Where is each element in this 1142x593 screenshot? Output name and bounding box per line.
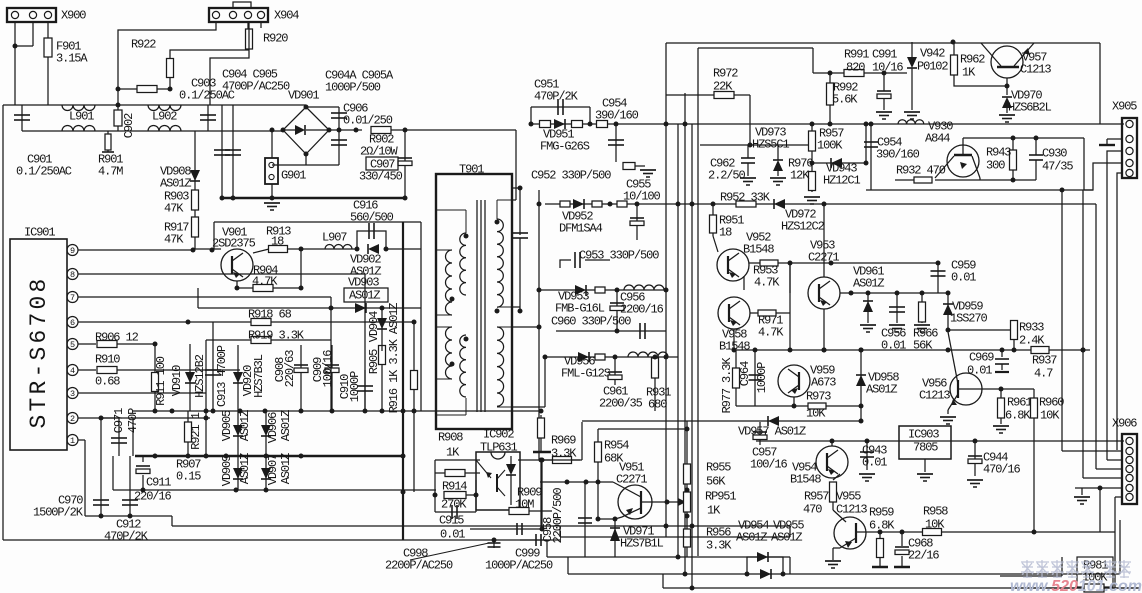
svg-text:R943: R943 (986, 146, 1011, 160)
svg-text:X904: X904 (274, 9, 299, 23)
svg-text:12K: 12K (790, 169, 810, 183)
svg-text:P0102: P0102 (917, 60, 948, 74)
svg-text:680: 680 (648, 398, 667, 412)
svg-text:HZS5C1: HZS5C1 (752, 138, 790, 152)
svg-text:10M: 10M (515, 498, 534, 512)
svg-text:G901: G901 (281, 169, 306, 183)
svg-text:C964: C964 (738, 361, 752, 386)
svg-text:R914: R914 (442, 480, 467, 494)
svg-text:HZS12C2: HZS12C2 (781, 220, 825, 234)
svg-text:4.7K: 4.7K (754, 276, 780, 290)
svg-text:C913 4700P: C913 4700P (215, 345, 229, 407)
svg-text:1000P/500: 1000P/500 (325, 81, 381, 95)
svg-text:68K: 68K (604, 452, 624, 466)
svg-text:B1548: B1548 (743, 243, 774, 257)
svg-text:2200P/AC250: 2200P/AC250 (385, 559, 453, 573)
svg-text:R920: R920 (263, 32, 288, 46)
svg-text:6: 6 (70, 318, 75, 328)
svg-text:56K: 56K (913, 339, 933, 353)
svg-text:4.7: 4.7 (1034, 367, 1053, 381)
svg-text:10K: 10K (1040, 409, 1060, 423)
svg-text:VD957 AS01Z: VD957 AS01Z (738, 425, 806, 439)
svg-text:FMG-G26S: FMG-G26S (540, 140, 590, 154)
svg-text:3.3K: 3.3K (551, 447, 577, 461)
svg-text:100/16: 100/16 (750, 458, 788, 472)
svg-text:VD901: VD901 (288, 89, 319, 103)
svg-text:220/63: 220/63 (283, 350, 297, 388)
svg-text:R919 3.3K: R919 3.3K (248, 329, 305, 343)
svg-text:RP951: RP951 (705, 490, 736, 504)
svg-text:22K: 22K (713, 80, 733, 94)
svg-text:R991: R991 (844, 48, 869, 62)
svg-text:0.01: 0.01 (967, 364, 992, 378)
svg-text:820: 820 (846, 61, 865, 75)
svg-text:4.7K: 4.7K (758, 326, 784, 340)
svg-text:10K: 10K (925, 518, 945, 532)
svg-text:1000P/AC250: 1000P/AC250 (485, 559, 553, 573)
svg-text:HZS7B1L: HZS7B1L (620, 537, 664, 551)
svg-text:4700P/AC250: 4700P/AC250 (222, 80, 290, 94)
svg-text:5: 5 (70, 340, 75, 350)
svg-text:3.15A: 3.15A (56, 52, 88, 66)
svg-text:R969: R969 (551, 434, 576, 448)
svg-text:390/160: 390/160 (876, 148, 920, 162)
svg-text:10/100: 10/100 (623, 190, 661, 204)
svg-text:3: 3 (70, 389, 75, 399)
svg-text:R955: R955 (706, 461, 731, 475)
svg-text:R959: R959 (869, 506, 894, 520)
svg-text:0.01: 0.01 (440, 528, 465, 542)
svg-text:390/160: 390/160 (595, 109, 639, 123)
svg-text:C953 330P/500: C953 330P/500 (579, 249, 659, 263)
svg-text:R977 3.3K: R977 3.3K (720, 357, 734, 414)
svg-text:R911 100: R911 100 (154, 356, 168, 406)
svg-text:STR-S6708: STR-S6708 (26, 275, 52, 428)
svg-text:AS01Z: AS01Z (853, 277, 884, 291)
svg-text:9: 9 (70, 246, 75, 256)
svg-text:R961: R961 (1007, 396, 1032, 410)
svg-text:C969: C969 (969, 351, 994, 365)
svg-text:300: 300 (986, 159, 1005, 173)
svg-text:1SS270: 1SS270 (950, 312, 988, 326)
svg-text:HZ12C1: HZ12C1 (823, 174, 861, 188)
svg-text:FML-G12S: FML-G12S (561, 367, 611, 381)
svg-text:AS01Z: AS01Z (279, 410, 293, 441)
svg-text:AS01Z: AS01Z (238, 453, 252, 484)
svg-text:C991: C991 (872, 48, 897, 62)
svg-text:FMB-G16L: FMB-G16L (555, 302, 605, 316)
svg-text:R910: R910 (95, 353, 120, 367)
svg-text:0.1/250AC: 0.1/250AC (16, 165, 72, 179)
svg-text:470P/2K: 470P/2K (104, 530, 149, 544)
svg-text:C2271: C2271 (616, 473, 647, 487)
svg-text:1K: 1K (962, 66, 976, 80)
svg-text:0.68: 0.68 (95, 375, 120, 389)
svg-text:IC902: IC902 (483, 428, 514, 442)
svg-text:18: 18 (271, 235, 284, 249)
svg-text:7805: 7805 (913, 441, 938, 455)
svg-text:X900: X900 (61, 9, 86, 23)
svg-text:R933: R933 (1019, 321, 1044, 335)
svg-text:C930: C930 (1042, 147, 1067, 161)
svg-text:R972: R972 (713, 67, 738, 81)
svg-text:56K: 56K (706, 475, 726, 489)
svg-text:R954: R954 (604, 439, 629, 453)
svg-text:7: 7 (70, 293, 75, 303)
svg-text:C1213: C1213 (836, 503, 867, 517)
svg-text:47K: 47K (164, 233, 184, 247)
svg-text:VD904: VD904 (367, 311, 381, 342)
svg-text:1000P: 1000P (348, 371, 362, 402)
svg-text:AS01Z: AS01Z (866, 383, 897, 397)
svg-text:2: 2 (70, 414, 75, 424)
svg-text:VD909: VD909 (220, 455, 234, 486)
svg-text:0.01: 0.01 (951, 271, 976, 285)
svg-text:1500P/2K: 1500P/2K (33, 506, 84, 520)
svg-text:4: 4 (70, 366, 75, 376)
svg-text:C1213: C1213 (1020, 63, 1051, 77)
svg-text:6.8K: 6.8K (1005, 409, 1031, 423)
svg-text:DFM1SA4: DFM1SA4 (559, 222, 603, 236)
svg-text:VD907: VD907 (266, 454, 280, 485)
svg-text:R921 1: R921 1 (189, 412, 203, 450)
svg-text:www.520101.com: www.520101.com (1010, 578, 1142, 593)
svg-text:2200/35: 2200/35 (599, 397, 643, 411)
svg-text:470/16: 470/16 (983, 463, 1021, 477)
svg-text:L902: L902 (152, 110, 177, 124)
svg-text:L901: L901 (69, 110, 94, 124)
svg-text:5.6K: 5.6K (832, 93, 858, 107)
svg-text:R952 33K: R952 33K (720, 191, 771, 205)
svg-text:X906: X906 (1112, 417, 1137, 431)
svg-text:AS01Z: AS01Z (238, 410, 252, 441)
svg-text:470P/2K: 470P/2K (534, 90, 579, 104)
svg-text:220/16: 220/16 (134, 490, 172, 504)
svg-text:HZS7B3L: HZS7B3L (252, 354, 266, 398)
svg-text:C960 330P/500: C960 330P/500 (551, 315, 631, 329)
svg-text:VD910: VD910 (170, 365, 184, 396)
svg-text:4.7M: 4.7M (98, 165, 123, 179)
svg-text:C902: C902 (122, 113, 136, 138)
svg-text:1K: 1K (707, 504, 721, 518)
svg-text:R960: R960 (1039, 396, 1064, 410)
svg-text:A673: A673 (811, 376, 836, 390)
svg-text:10K: 10K (806, 407, 826, 421)
svg-text:AS01Z: AS01Z (279, 453, 293, 484)
svg-text:2200P/500: 2200P/500 (551, 488, 565, 544)
svg-text:V955: V955 (836, 490, 861, 504)
svg-text:R937: R937 (1032, 354, 1057, 368)
svg-text:100K: 100K (817, 139, 843, 153)
svg-text:0.15: 0.15 (176, 470, 201, 484)
svg-text:HZS12B2: HZS12B2 (193, 354, 207, 398)
svg-text:4.7K: 4.7K (252, 275, 278, 289)
svg-text:6.8K: 6.8K (869, 519, 895, 533)
svg-text:R922: R922 (131, 38, 156, 52)
svg-text:R958: R958 (923, 505, 948, 519)
svg-text:R932 470: R932 470 (896, 164, 946, 178)
svg-text:C952 330P/500: C952 330P/500 (531, 169, 611, 183)
svg-text:0.01: 0.01 (862, 456, 887, 470)
svg-text:HZS6B2L: HZS6B2L (1008, 101, 1052, 115)
svg-text:A844: A844 (925, 132, 950, 146)
svg-text:T901: T901 (459, 163, 484, 177)
svg-text:R906 12: R906 12 (95, 331, 139, 345)
svg-text:270K: 270K (441, 498, 467, 512)
svg-text:0.01/250: 0.01/250 (343, 114, 393, 128)
svg-text:VD905: VD905 (220, 410, 234, 441)
svg-text:0.01: 0.01 (881, 339, 906, 353)
svg-text:X905: X905 (1112, 100, 1137, 114)
svg-text:1K: 1K (446, 446, 460, 460)
svg-text:47K: 47K (164, 202, 184, 216)
svg-text:R957: R957 (804, 490, 829, 504)
svg-text:22/16: 22/16 (908, 549, 939, 563)
svg-text:C1213: C1213 (919, 389, 950, 403)
svg-text:B1548: B1548 (790, 473, 821, 487)
svg-text:2.2/50: 2.2/50 (708, 169, 746, 183)
svg-text:R973: R973 (806, 390, 831, 404)
svg-text:IC903: IC903 (908, 428, 939, 442)
svg-text:10/16: 10/16 (872, 61, 903, 75)
svg-text:100/16: 100/16 (321, 350, 335, 388)
svg-text:330/450: 330/450 (359, 170, 403, 184)
svg-text:8: 8 (70, 270, 75, 280)
svg-text:R918 68: R918 68 (248, 308, 292, 322)
svg-text:1000P: 1000P (755, 362, 769, 393)
svg-text:TLP631: TLP631 (480, 441, 518, 455)
svg-text:R962: R962 (960, 53, 985, 67)
svg-text:470: 470 (803, 503, 822, 517)
svg-text:18: 18 (719, 226, 732, 240)
svg-text:AS01Z: AS01Z (160, 177, 191, 191)
svg-text:L907: L907 (322, 231, 347, 245)
svg-text:VD906: VD906 (266, 412, 280, 443)
svg-text:IC901: IC901 (24, 226, 55, 240)
svg-text:V942: V942 (920, 47, 945, 61)
svg-text:R908: R908 (438, 431, 463, 445)
svg-text:C911: C911 (146, 476, 171, 490)
svg-text:R916 1K 3.3K AS01Z: R916 1K 3.3K AS01Z (387, 303, 401, 414)
svg-text:2.4K: 2.4K (1019, 334, 1045, 348)
svg-text:47/35: 47/35 (1042, 160, 1073, 174)
svg-text:3.3K: 3.3K (706, 539, 732, 553)
svg-text:C915: C915 (439, 514, 464, 528)
svg-text:C971: C971 (112, 408, 126, 433)
svg-text:1: 1 (70, 436, 75, 446)
